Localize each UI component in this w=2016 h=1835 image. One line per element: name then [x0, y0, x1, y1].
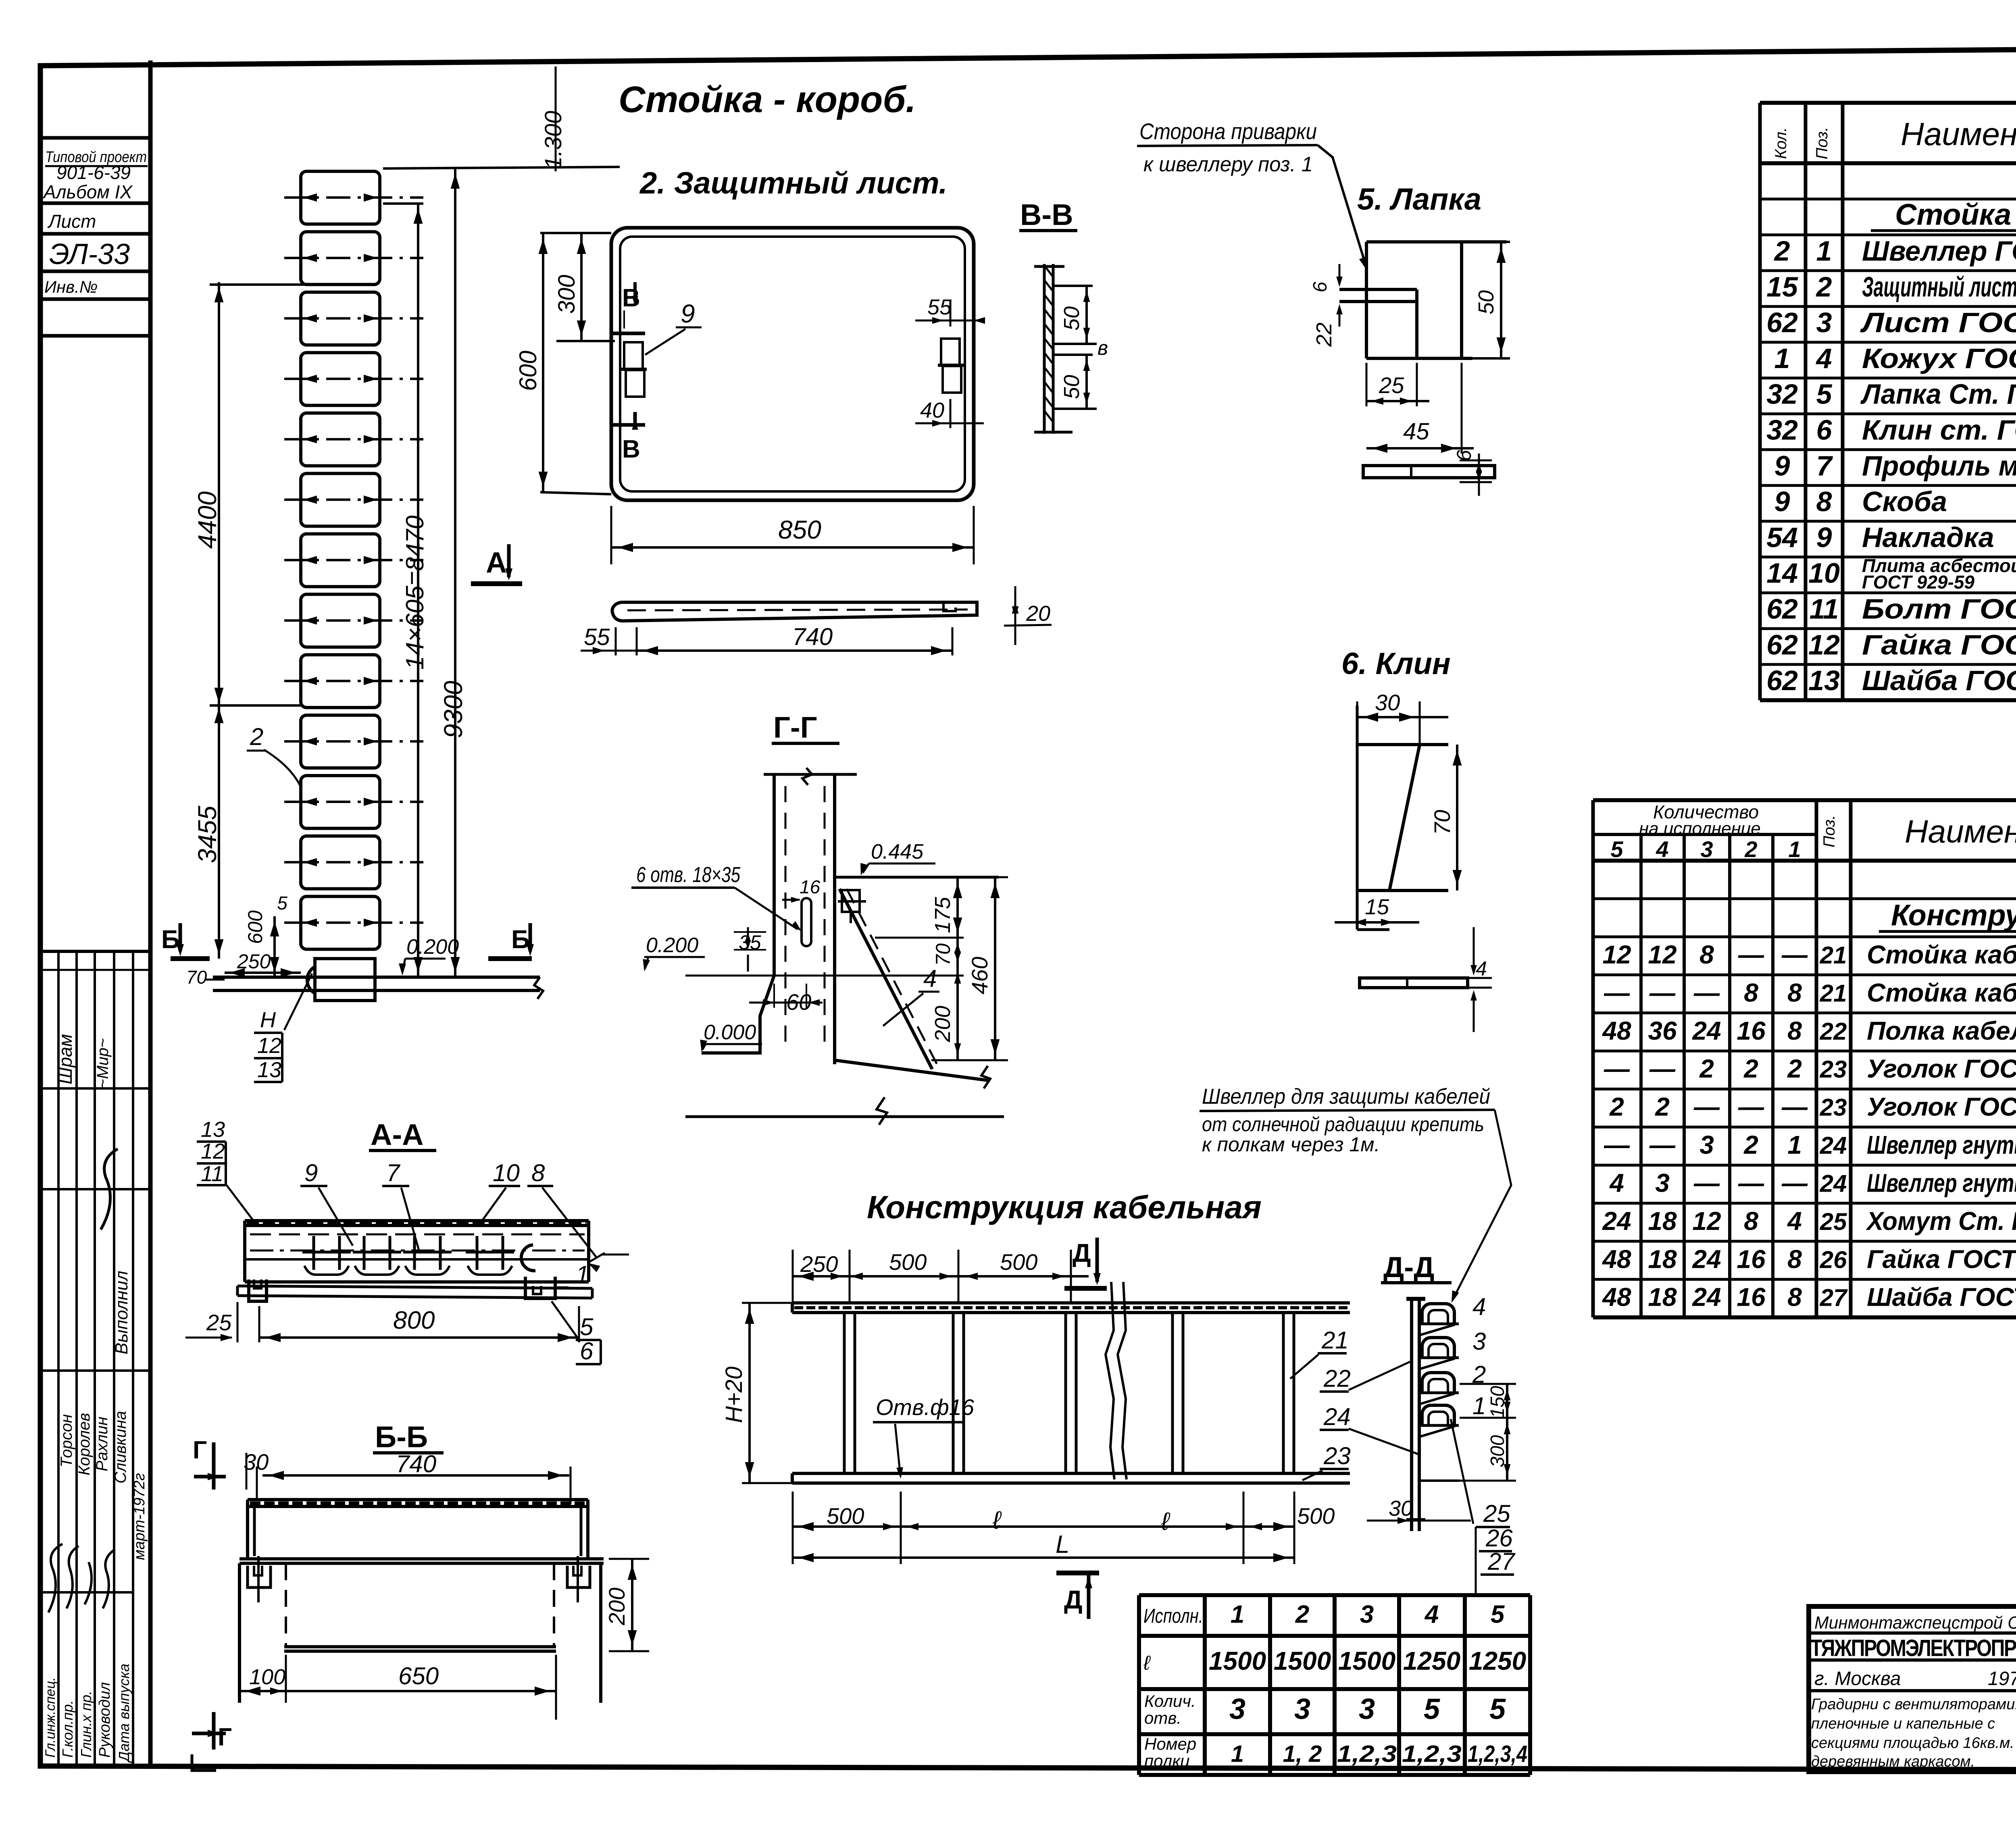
svg-text:Градирни с вентиляторами1ВГ25: Градирни с вентиляторами1ВГ25	[1811, 1696, 2016, 1713]
исполнение table	[1139, 1595, 1530, 1775]
Г-Г diagonal brace	[839, 889, 932, 1069]
svg-text:25: 25	[1379, 372, 1404, 398]
svg-text:27: 27	[1487, 1548, 1516, 1575]
svg-text:500: 500	[1000, 1249, 1037, 1275]
svg-text:в: в	[1098, 337, 1108, 359]
svg-text:0.445: 0.445	[871, 840, 924, 863]
svg-text:Хомут Ст. ГОСТ 2590-57: Хомут Ст. ГОСТ 2590-57	[1866, 1207, 2016, 1236]
svg-text:Выполнил: Выполнил	[112, 1271, 131, 1354]
svg-text:650: 650	[398, 1662, 439, 1689]
svg-text:18: 18	[1648, 1283, 1677, 1312]
svg-text:6: 6	[1310, 281, 1331, 292]
svg-text:Глин.х пр.: Глин.х пр.	[78, 1691, 94, 1758]
svg-text:Торсон: Торсон	[58, 1414, 75, 1467]
svg-text:Исполн.: Исполн.	[1143, 1605, 1203, 1627]
column front view segments	[301, 171, 380, 949]
title block	[1809, 1606, 2016, 1772]
В-В dim 50 bottom	[1053, 354, 1093, 356]
Б-Б cover	[248, 1498, 588, 1501]
svg-text:300: 300	[1487, 1435, 1508, 1467]
svg-text:1,2,3: 1,2,3	[1402, 1741, 1462, 1767]
svg-text:~Мир~: ~Мир~	[94, 1038, 112, 1088]
svg-text:Швеллер для защиты кабелей: Швеллер для защиты кабелей	[1202, 1084, 1490, 1109]
Г-Г post	[764, 773, 857, 776]
svg-text:54: 54	[1766, 522, 1798, 553]
svg-text:24: 24	[1692, 1244, 1721, 1273]
svg-text:20: 20	[1026, 601, 1050, 626]
Г-Г bracket top	[835, 876, 999, 879]
svg-text:3: 3	[1816, 307, 1832, 338]
svg-text:18: 18	[1648, 1244, 1677, 1273]
column base block	[315, 959, 375, 1001]
svg-text:62: 62	[1766, 629, 1798, 660]
lapka slot	[1339, 288, 1417, 291]
svg-text:Кол.: Кол.	[1772, 127, 1790, 159]
Б-Б clamps	[248, 1566, 271, 1587]
svg-text:740: 740	[792, 623, 833, 650]
svg-text:30: 30	[1375, 690, 1400, 715]
svg-text:250: 250	[237, 950, 271, 973]
svg-text:8: 8	[531, 1159, 545, 1186]
svg-text:13: 13	[257, 1058, 281, 1082]
svg-text:70: 70	[932, 943, 954, 966]
svg-text:3455: 3455	[193, 805, 222, 863]
svg-text:—: —	[1604, 978, 1630, 1007]
svg-text:5: 5	[1491, 1601, 1505, 1629]
dim 250 at base	[225, 972, 301, 974]
Б-Б dim 200	[609, 1558, 649, 1560]
svg-text:3: 3	[1472, 1328, 1486, 1355]
svg-text:4: 4	[1609, 1168, 1624, 1197]
svg-text:8: 8	[1787, 978, 1802, 1007]
svg-text:2: 2	[1743, 1054, 1758, 1083]
svg-text:4: 4	[1787, 1207, 1802, 1236]
svg-text:6: 6	[1816, 414, 1833, 446]
svg-text:10: 10	[493, 1159, 520, 1186]
Г-Г base splay	[702, 976, 774, 1053]
svg-text:—: —	[1604, 1130, 1630, 1159]
svg-text:Номер: Номер	[1144, 1735, 1196, 1754]
svg-text:12: 12	[1602, 940, 1631, 969]
rung weld arrows	[284, 193, 423, 927]
svg-text:март-1972г: март-1972г	[131, 1473, 148, 1560]
Д-Д post	[1410, 1299, 1413, 1531]
svg-text:26: 26	[1820, 1246, 1847, 1273]
svg-text:70: 70	[186, 967, 207, 988]
svg-text:1: 1	[1816, 235, 1832, 267]
svg-text:1: 1	[1774, 343, 1790, 374]
svg-text:Конструкция кабельная: Конструкция кабельная	[1891, 899, 2016, 932]
svg-text:5: 5	[580, 1313, 594, 1340]
svg-text:300: 300	[554, 275, 580, 314]
svg-text:Б: Б	[511, 925, 530, 954]
signature strip lines	[40, 950, 150, 953]
svg-text:Б: Б	[161, 925, 180, 954]
svg-text:1500: 1500	[1338, 1646, 1395, 1675]
svg-text:8: 8	[1744, 1207, 1758, 1236]
svg-text:ℓ: ℓ	[992, 1506, 1002, 1534]
svg-text:200: 200	[604, 1587, 629, 1625]
svg-text:Стойка - короб.: Стойка - короб.	[1895, 198, 2016, 231]
sheet side view strip	[612, 602, 977, 621]
svg-text:24: 24	[1820, 1132, 1847, 1159]
svg-text:L: L	[1056, 1531, 1069, 1558]
parts table 2	[1593, 800, 2016, 1317]
svg-text:г. Москва: г. Москва	[1814, 1668, 1901, 1689]
lapka side view	[1363, 466, 1495, 478]
svg-text:48: 48	[1602, 1283, 1631, 1312]
svg-text:к полкам через 1м.: к полкам через 1м.	[1202, 1133, 1380, 1156]
svg-text:—: —	[1693, 1168, 1720, 1197]
svg-text:5: 5	[1816, 379, 1833, 410]
svg-text:Шайба ГОСТ 11371-68: Шайба ГОСТ 11371-68	[1862, 665, 2016, 696]
svg-text:5: 5	[1610, 836, 1623, 862]
svg-text:3: 3	[1229, 1693, 1245, 1725]
svg-text:24: 24	[1692, 1016, 1721, 1045]
svg-text:8: 8	[1699, 940, 1714, 969]
svg-text:Б-Б: Б-Б	[375, 1420, 428, 1454]
svg-text:Отв.ф16: Отв.ф16	[876, 1394, 975, 1420]
svg-text:деревянным каркасом.: деревянным каркасом.	[1811, 1753, 1975, 1770]
svg-text:—: —	[1781, 940, 1808, 969]
svg-text:—: —	[1738, 1092, 1764, 1121]
svg-text:1.300: 1.300	[540, 111, 566, 169]
Г-Г ground bottom	[685, 1115, 1004, 1118]
svg-text:16: 16	[1737, 1283, 1766, 1312]
svg-text:Швеллер гнутый ГОСТ8278-63: Швеллер гнутый ГОСТ8278-63	[1867, 1130, 2016, 1159]
svg-text:4: 4	[1424, 1601, 1439, 1629]
svg-text:Уголок ГОСТ 8509-57: Уголок ГОСТ 8509-57	[1867, 1092, 2016, 1121]
Д-Д dim 30	[1367, 1520, 1471, 1522]
svg-text:Лист: Лист	[47, 211, 96, 232]
svg-text:740: 740	[396, 1450, 436, 1477]
svg-text:175: 175	[931, 897, 955, 933]
svg-text:500: 500	[1297, 1503, 1335, 1529]
svg-text:62: 62	[1766, 307, 1798, 338]
svg-text:16: 16	[1737, 1244, 1766, 1273]
svg-text:—: —	[1693, 978, 1720, 1007]
svg-text:8: 8	[1787, 1283, 1802, 1312]
svg-text:7: 7	[386, 1159, 401, 1186]
svg-text:9: 9	[1816, 522, 1832, 553]
svg-text:Шрам: Шрам	[55, 1034, 76, 1084]
svg-text:3: 3	[1700, 836, 1713, 862]
Г-Г right dims 175 70 200 460	[875, 876, 1008, 878]
svg-text:ℓ: ℓ	[1161, 1508, 1170, 1535]
svg-text:В: В	[622, 435, 640, 463]
svg-text:Стойка кабельная: Стойка кабельная	[1867, 940, 2016, 969]
svg-text:32: 32	[1766, 414, 1798, 446]
svg-text:4: 4	[1656, 836, 1668, 862]
svg-text:25: 25	[1483, 1500, 1510, 1527]
Г-Г bolt fitting	[842, 890, 860, 912]
svg-text:ℓ: ℓ	[1143, 1652, 1151, 1674]
svg-text:—: —	[1693, 1092, 1720, 1121]
svg-text:23: 23	[1820, 1094, 1847, 1121]
svg-text:3: 3	[1359, 1693, 1375, 1725]
svg-text:Скоба: Скоба	[1862, 486, 1947, 517]
svg-text:от солнечной радиации крепить: от солнечной радиации крепить	[1202, 1113, 1484, 1136]
svg-text:45: 45	[1403, 418, 1429, 445]
svg-text:Д: Д	[1064, 1585, 1083, 1614]
svg-text:Гл.инж.спец.: Гл.инж.спец.	[43, 1677, 58, 1758]
svg-text:200: 200	[931, 1006, 955, 1042]
svg-text:полки: полки	[1144, 1752, 1189, 1771]
svg-text:—: —	[1649, 1130, 1676, 1159]
svg-text:901-6-39: 901-6-39	[56, 162, 131, 183]
dim 850	[610, 506, 612, 564]
svg-text:5: 5	[1424, 1693, 1440, 1725]
svg-text:100: 100	[249, 1665, 285, 1689]
svg-text:Гайка ГОСТ 5915-70: Гайка ГОСТ 5915-70	[1862, 629, 2016, 660]
svg-text:600: 600	[244, 910, 267, 944]
svg-text:70: 70	[1429, 810, 1455, 835]
svg-text:12: 12	[1648, 940, 1677, 969]
signature scribbles	[48, 1544, 62, 1612]
svg-text:13: 13	[201, 1117, 225, 1142]
svg-text:Поз.: Поз.	[1820, 815, 1838, 848]
svg-text:отв.: отв.	[1144, 1708, 1181, 1727]
svg-text:Болт ГОСТ 7798-62: Болт ГОСТ 7798-62	[1862, 593, 2016, 625]
В-В hatched strip	[1043, 264, 1046, 434]
svg-text:Защитный лист Ст.ГОСТ3680-57: Защитный лист Ст.ГОСТ3680-57	[1862, 271, 2016, 302]
svg-text:250: 250	[800, 1251, 838, 1277]
svg-text:12: 12	[1808, 629, 1840, 660]
svg-text:22: 22	[1312, 322, 1336, 347]
svg-text:14: 14	[1766, 558, 1798, 589]
panel inner	[620, 237, 965, 491]
svg-text:11: 11	[1810, 593, 1839, 625]
svg-text:23: 23	[1323, 1442, 1351, 1469]
svg-text:1, 2: 1, 2	[1283, 1741, 1322, 1767]
svg-text:2: 2	[1787, 1054, 1802, 1083]
svg-text:1250: 1250	[1469, 1646, 1526, 1675]
В-В dim 50 top	[1053, 285, 1093, 287]
dim 300 panel	[580, 233, 583, 341]
svg-text:15: 15	[1766, 271, 1798, 302]
svg-text:9: 9	[681, 299, 695, 328]
svg-text:4: 4	[1476, 957, 1487, 980]
svg-text:1: 1	[576, 1261, 589, 1288]
svg-text:Г: Г	[218, 1723, 232, 1751]
svg-text:1500: 1500	[1274, 1646, 1331, 1675]
svg-text:12: 12	[257, 1034, 281, 1058]
svg-text:50: 50	[1060, 306, 1084, 331]
svg-text:9: 9	[1774, 450, 1790, 481]
svg-text:А-А: А-А	[371, 1118, 424, 1151]
panel outer	[611, 228, 974, 500]
svg-text:Стойка - короб.: Стойка - короб.	[619, 79, 916, 120]
svg-text:Профиль монтажный: Профиль монтажный	[1862, 450, 2016, 481]
dim 50 lapka right	[1472, 241, 1510, 243]
svg-text:22: 22	[1820, 1018, 1847, 1045]
svg-text:23: 23	[1820, 1056, 1847, 1083]
svg-text:—: —	[1604, 1054, 1630, 1083]
А-А right clamp	[525, 1277, 555, 1298]
svg-text:36: 36	[1648, 1016, 1677, 1045]
svg-text:2: 2	[1774, 235, 1790, 267]
svg-text:12: 12	[201, 1139, 225, 1163]
klin trapezoid	[1356, 705, 1359, 930]
left strip header boxes	[40, 136, 150, 140]
svg-text:7: 7	[1816, 450, 1833, 481]
svg-text:1: 1	[1472, 1392, 1486, 1419]
svg-text:8: 8	[1787, 1244, 1802, 1273]
svg-text:Королев: Королев	[75, 1413, 93, 1475]
svg-text:секциями площадью 16кв.м. с: секциями площадью 16кв.м. с	[1811, 1735, 2016, 1752]
svg-text:30: 30	[1389, 1496, 1413, 1521]
left title strip divider	[148, 60, 153, 1766]
Г-Г slot	[802, 898, 811, 946]
svg-text:Поз.: Поз.	[1813, 127, 1831, 160]
svg-text:Наименование: Наименование	[1901, 116, 2016, 152]
svg-text:2. Защитный лист.: 2. Защитный лист.	[639, 166, 948, 200]
cable ladder uprights	[843, 1313, 846, 1473]
dim H+20	[748, 1303, 751, 1483]
svg-text:0.200: 0.200	[406, 935, 459, 959]
svg-text:Г-Г: Г-Г	[773, 711, 817, 744]
svg-text:9: 9	[304, 1159, 318, 1186]
svg-text:Шайба ГОСТ 11371-68: Шайба ГОСТ 11371-68	[1867, 1283, 2016, 1312]
klin side view	[1360, 978, 1468, 988]
svg-text:Конструкция кабельная: Конструкция кабельная	[867, 1189, 1262, 1225]
svg-text:50: 50	[1474, 290, 1498, 314]
parts table 1	[1760, 103, 2016, 700]
dim 600 at base	[273, 916, 276, 977]
svg-text:8: 8	[1744, 978, 1758, 1007]
svg-text:11: 11	[201, 1162, 223, 1186]
svg-text:5. Лапка: 5. Лапка	[1357, 182, 1481, 216]
svg-text:27: 27	[1820, 1284, 1848, 1311]
svg-text:Клин ст. ГОСТ 103-57: Клин ст. ГОСТ 103-57	[1862, 414, 2016, 446]
svg-text:2: 2	[1609, 1092, 1624, 1121]
svg-text:Инв.№: Инв.№	[44, 277, 98, 296]
svg-text:3: 3	[1699, 1130, 1714, 1159]
svg-text:6. Клин: 6. Клин	[1341, 647, 1451, 681]
svg-text:800: 800	[393, 1307, 435, 1334]
svg-text:22: 22	[1323, 1365, 1351, 1392]
svg-text:Накладка: Накладка	[1862, 522, 1994, 553]
svg-text:24: 24	[1602, 1207, 1631, 1236]
svg-text:9300: 9300	[439, 680, 468, 738]
Д-Д hooks	[1420, 1304, 1459, 1437]
svg-text:ЭЛ-33: ЭЛ-33	[49, 238, 130, 270]
svg-text:2: 2	[1295, 1601, 1309, 1629]
svg-text:Минмонтажспецстрой СССР: Минмонтажспецстрой СССР	[1814, 1613, 2016, 1633]
svg-text:Швеллер гнутый ГОСТ8278-63: Швеллер гнутый ГОСТ8278-63	[1867, 1168, 2016, 1197]
svg-text:Лапка Ст. ГОСТ 103-57: Лапка Ст. ГОСТ 103-57	[1860, 379, 2016, 410]
svg-text:18: 18	[1648, 1207, 1677, 1236]
svg-text:48: 48	[1602, 1016, 1631, 1045]
svg-text:48: 48	[1602, 1244, 1631, 1273]
svg-text:Г: Г	[193, 1436, 207, 1464]
svg-text:1: 1	[1231, 1741, 1244, 1767]
svg-text:25: 25	[1820, 1208, 1847, 1235]
svg-text:1250: 1250	[1403, 1646, 1460, 1675]
А-А box	[245, 1219, 589, 1222]
svg-text:24: 24	[1323, 1403, 1351, 1430]
svg-text:Уголок ГОСТ 8509-57: Уголок ГОСТ 8509-57	[1867, 1054, 2016, 1083]
svg-text:Руководил: Руководил	[96, 1682, 113, 1758]
svg-text:40: 40	[920, 398, 944, 422]
svg-text:4400: 4400	[193, 491, 222, 549]
svg-text:2: 2	[1655, 1092, 1670, 1121]
svg-text:2: 2	[1743, 1130, 1758, 1159]
svg-text:9: 9	[1774, 486, 1790, 517]
Д-Д dims 150 300	[1460, 1383, 1516, 1385]
svg-text:1: 1	[1231, 1601, 1244, 1629]
svg-text:Н: Н	[260, 1008, 276, 1032]
cable ladder rails	[792, 1301, 1350, 1304]
svg-text:А: А	[486, 547, 507, 579]
svg-text:5: 5	[1489, 1693, 1506, 1725]
svg-text:—: —	[1738, 1168, 1764, 1197]
svg-text:Полка кабельная: Полка кабельная	[1867, 1016, 2016, 1045]
svg-text:50: 50	[1060, 375, 1084, 399]
svg-text:500: 500	[889, 1249, 927, 1275]
svg-text:Швеллер ГОСТ8240-56: Швеллер ГОСТ8240-56	[1862, 235, 2016, 267]
svg-text:21: 21	[1321, 1327, 1349, 1354]
svg-text:16: 16	[1737, 1016, 1766, 1045]
svg-text:26: 26	[1485, 1525, 1513, 1552]
svg-text:10: 10	[1808, 558, 1840, 589]
svg-text:25: 25	[206, 1310, 232, 1335]
svg-text:Альбом IX: Альбом IX	[42, 181, 133, 202]
svg-text:62: 62	[1766, 665, 1798, 696]
dim 600 panel	[542, 233, 544, 492]
svg-text:1: 1	[1787, 1130, 1802, 1159]
svg-text:13: 13	[1808, 665, 1840, 696]
svg-text:Сливкина: Сливкина	[112, 1411, 129, 1483]
svg-text:Дата выпуска: Дата выпуска	[116, 1664, 132, 1763]
svg-text:2: 2	[1816, 271, 1832, 302]
svg-text:Кожух ГОСТ 3680-57: Кожух ГОСТ 3680-57	[1862, 343, 2016, 374]
svg-text:Д-Д: Д-Д	[1383, 1251, 1435, 1284]
svg-text:Рахлин: Рахлин	[93, 1417, 111, 1471]
svg-text:32: 32	[1766, 379, 1798, 410]
svg-text:пленочные и капельные с: пленочные и капельные с	[1811, 1715, 1995, 1732]
svg-text:Н+20: Н+20	[721, 1367, 747, 1423]
svg-text:Лист ГОСТ 3680-57: Лист ГОСТ 3680-57	[1860, 307, 2016, 338]
svg-text:24: 24	[1692, 1283, 1721, 1312]
А-А bottom bar	[237, 1286, 592, 1288]
svg-text:3: 3	[1360, 1601, 1374, 1629]
lapka plate	[1366, 240, 1506, 243]
svg-text:—: —	[1781, 1092, 1808, 1121]
svg-text:4: 4	[923, 965, 937, 992]
dim 9300	[454, 169, 456, 977]
svg-text:460: 460	[967, 957, 992, 994]
svg-text:—: —	[1649, 978, 1676, 1007]
support slab lines	[213, 976, 540, 979]
svg-text:16: 16	[800, 876, 821, 897]
А-А skoba symbols	[302, 1236, 514, 1275]
svg-text:Гайка ГОСТ5915-70: Гайка ГОСТ5915-70	[1867, 1244, 2016, 1273]
svg-text:1972г: 1972г	[1988, 1668, 2016, 1689]
panel handle right	[941, 339, 960, 365]
svg-text:62: 62	[1766, 593, 1798, 625]
dim 14x605=8470	[417, 204, 419, 977]
svg-text:1,2,3: 1,2,3	[1337, 1741, 1397, 1767]
svg-text:—: —	[1781, 1168, 1808, 1197]
svg-text:2: 2	[250, 723, 263, 750]
svg-text:на исполнение: на исполнение	[1639, 819, 1761, 838]
svg-text:1: 1	[1788, 836, 1801, 862]
leader to lapka	[1318, 145, 1366, 266]
svg-text:150: 150	[1487, 1386, 1508, 1418]
svg-text:3: 3	[1294, 1693, 1310, 1725]
svg-text:500: 500	[827, 1503, 864, 1529]
